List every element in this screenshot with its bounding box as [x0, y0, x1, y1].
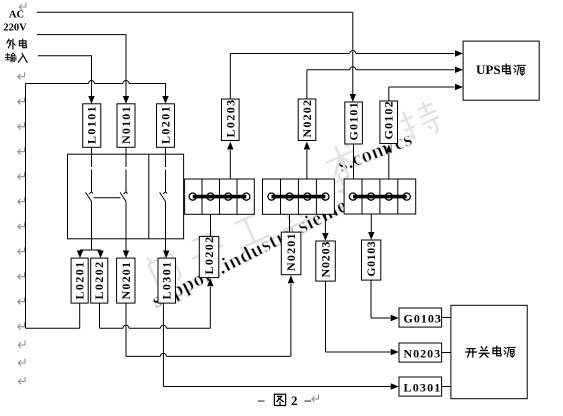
- arrow into N0201 row2 top: [123, 251, 129, 259]
- terminal block TB2: [263, 179, 335, 214]
- terminal block TB3: [344, 179, 416, 214]
- wire L0101 to switch box: [91, 147, 93, 191]
- box L0201 row2: [71, 258, 88, 303]
- wire G0102 top to UPS: [389, 87, 455, 101]
- svg-text:AC: AC: [9, 9, 24, 20]
- switch S3: [160, 192, 167, 239]
- svg-text:N0203: N0203: [404, 347, 442, 361]
- wire S3 output: [165, 239, 167, 252]
- svg-text:L0201: L0201: [73, 260, 87, 299]
- arrow into L0301 label box: [391, 383, 399, 389]
- text 外电: [7, 39, 27, 49]
- box N0202: [298, 99, 316, 141]
- box L0301 row2: [158, 258, 176, 303]
- arrow into UPS line2: [455, 67, 463, 73]
- watermark CJK fragment upper right: [322, 98, 445, 183]
- wire AC line to G0101: [37, 12, 353, 94]
- wire L0301 row2 down and right to L0301 label box: [163, 303, 390, 386]
- svg-text:220V: 220V: [3, 23, 27, 34]
- arrow into N0101 top: [123, 96, 129, 104]
- svg-text:–: –: [304, 392, 312, 407]
- paragraph mark after AC: [19, 3, 26, 10]
- arrow into G0101 top: [350, 94, 356, 102]
- wire left bus vertical: [25, 84, 27, 329]
- label box N0203: [399, 343, 442, 362]
- watermark CJK outline characters diagonal: [146, 170, 360, 289]
- arrow up into N0201 under-terminal bottom: [288, 275, 294, 283]
- wire TB1 down to L0202 under-terminal: [210, 214, 212, 236]
- box N0101: [117, 104, 135, 148]
- arrow into L0201 row2 top: [77, 251, 83, 259]
- wire TB2 down to N0201 under-terminal: [289, 214, 291, 232]
- svg-text:UPS: UPS: [476, 62, 501, 77]
- box L0202 under-terminal: [199, 235, 219, 277]
- svg-text:–: –: [257, 392, 265, 407]
- terminal block TB1: [185, 179, 255, 214]
- wire N0201 row2 down and right to N0201 under-terminal: [126, 284, 291, 356]
- box N0201 under-terminal: [281, 232, 301, 275]
- text AC 220V: [3, 9, 27, 33]
- switch S1: [86, 192, 93, 239]
- label box L0301: [399, 377, 442, 396]
- wire S1 output split to L0201/L0202: [80, 239, 101, 252]
- wire top bus: [26, 84, 166, 97]
- svg-text:L0301: L0301: [404, 381, 442, 395]
- switch S2: [120, 192, 127, 239]
- svg-text:L0202: L0202: [92, 260, 106, 299]
- arrow up into N0202 bottom: [304, 142, 310, 150]
- svg-text:N0201: N0201: [284, 232, 298, 271]
- wire input line to L0101: [38, 56, 95, 97]
- box G0102: [380, 100, 398, 143]
- svg-text:2: 2: [291, 393, 298, 408]
- arrow into L0202 row2 top: [97, 251, 103, 259]
- arrow into UPS line1: [455, 50, 463, 56]
- svg-text:N0203: N0203: [319, 241, 333, 278]
- wire TB2 up to N0202: [306, 150, 308, 179]
- box G0103 under-terminal: [362, 240, 381, 280]
- UPS power supply box: [463, 41, 539, 100]
- arrow into L0301 row2 top: [163, 251, 169, 259]
- wire N0203 down to label box: [326, 281, 391, 352]
- wire N0203 label to PSU: [442, 352, 451, 354]
- box N0203 under-terminal: [316, 241, 336, 281]
- svg-text:L0201: L0201: [158, 105, 172, 144]
- wire L0201 row2 down to left bus rail: [26, 303, 80, 328]
- wire TB3 up to G0102: [388, 154, 390, 180]
- svg-text:N0201: N0201: [119, 261, 133, 300]
- text 输入: [5, 53, 27, 62]
- paragraph marks left margin column: [18, 72, 25, 329]
- svg-text:N0202: N0202: [300, 99, 314, 138]
- wire TB3 down to G0103 with arrow: [370, 214, 372, 232]
- wire N0101 to switch box: [125, 147, 127, 191]
- paragraph marks lower left: [18, 341, 25, 385]
- svg-text:G0101: G0101: [347, 101, 361, 140]
- arrow into G0103 top: [368, 232, 374, 240]
- arrow into L0201 top: [162, 96, 168, 104]
- arrow up into L0203 bottom: [227, 142, 233, 150]
- svg-text:L0101: L0101: [85, 105, 99, 144]
- wire S2 output: [125, 239, 127, 252]
- box L0201 row1: [157, 104, 175, 148]
- caption - 图 2 -: [257, 392, 312, 408]
- switch enclosure box: [68, 154, 184, 239]
- box G0101: [345, 101, 363, 144]
- wire G0101 bottom to TB3: [353, 144, 355, 179]
- arrow into G0103 label box: [391, 315, 399, 321]
- wire L0201 to switch box: [165, 147, 167, 191]
- wire G0103 down to label box: [371, 280, 391, 318]
- svg-text:G0102: G0102: [382, 100, 396, 139]
- box L0203: [222, 98, 240, 140]
- arrow into N0203 top: [322, 233, 328, 241]
- svg-text:N0101: N0101: [119, 105, 133, 144]
- wire 220V line to N0101: [37, 35, 129, 97]
- svg-text:L0301: L0301: [160, 260, 174, 299]
- arrow up into G0102 bottom: [386, 145, 392, 153]
- label box G0103: [399, 308, 442, 327]
- wire L0203 top to UPS: [230, 51, 454, 100]
- wire N0202 top to UPS: [307, 67, 455, 99]
- svg-text:G0103: G0103: [404, 312, 442, 326]
- switching power supply box: [451, 305, 527, 398]
- svg-text:L0203: L0203: [223, 98, 237, 137]
- box L0101: [83, 104, 101, 148]
- paragraph mark after caption: [312, 395, 319, 402]
- wire TB2 down to N0203 with arrow: [324, 214, 326, 233]
- wire TB1 up to L0203: [229, 150, 231, 179]
- box N0201 row2: [117, 258, 135, 303]
- arrow into N0203 label box: [391, 349, 399, 355]
- switch linkage S1-S2: [94, 197, 121, 199]
- svg-text:G0103: G0103: [366, 241, 378, 277]
- arrow into L0101 top: [88, 96, 94, 104]
- arrow up into L0202 under-terminal bottom: [207, 278, 213, 286]
- svg-text:L0202: L0202: [202, 235, 216, 274]
- box L0202 row2: [91, 258, 108, 303]
- wire L0301 label to PSU: [442, 386, 451, 388]
- wire L0202 row2 down and right to L0202 under-terminal: [100, 287, 211, 328]
- arrow into UPS line3: [455, 84, 463, 90]
- wire G0103 label to PSU: [442, 317, 451, 319]
